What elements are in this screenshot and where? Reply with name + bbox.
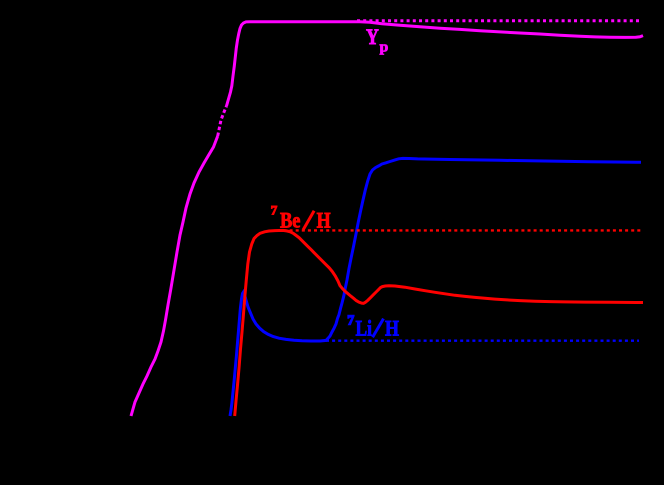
Yp solid curve (magenta), short dotted-looking section xyxy=(218,106,227,136)
svg-text:p: p xyxy=(380,39,389,55)
svg-text:H: H xyxy=(317,208,331,233)
svg-text:Li: Li xyxy=(356,316,373,341)
svg-text:Y: Y xyxy=(366,24,379,49)
Yp dotted horizontal line (magenta) xyxy=(357,19,640,22)
svg-text:H: H xyxy=(385,316,399,341)
7Be/H dotted horizontal line (red) xyxy=(284,229,643,231)
7Li/H solid curve (blue): spike, dip, steep rise, plateau xyxy=(230,158,641,416)
svg-text:7: 7 xyxy=(347,313,354,328)
Yp solid curve (magenta), upper part with plateau and gentle decline xyxy=(227,22,644,106)
svg-text:7: 7 xyxy=(271,202,278,217)
7Li/H dotted horizontal line (blue) xyxy=(326,340,639,342)
Yp solid curve (magenta), lower rising part xyxy=(131,136,218,416)
svg-text:Be: Be xyxy=(280,208,301,233)
7Be/H solid curve (red): steep rise, peak, descent, dip, bump, slow decay xyxy=(235,230,643,416)
